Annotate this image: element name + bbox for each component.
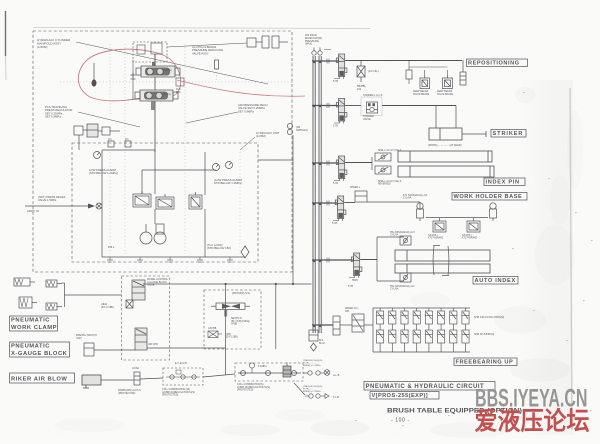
junction box C2 xyxy=(125,141,131,147)
wire xyxy=(320,372,324,374)
valve block VB1 xyxy=(133,191,151,207)
leader xyxy=(186,112,238,123)
wire pilot to valve xyxy=(154,54,156,66)
wire between regulators xyxy=(426,217,488,219)
label box PNEUMATIC X-GAUGE BLOCK xyxy=(10,342,70,357)
dashed right edge inner xyxy=(291,39,293,128)
FLS fitting xyxy=(176,78,184,86)
wire xyxy=(101,150,103,257)
wire xyxy=(102,149,155,151)
solenoid valve SV3 index pin xyxy=(334,156,347,181)
fitting cluster top right xyxy=(247,36,288,48)
dotted grid x=125 xyxy=(124,152,126,254)
feed valve freebearing xyxy=(333,316,340,335)
bus line x=321.2 xyxy=(320,56,322,333)
bus junction y=261 xyxy=(313,260,315,262)
nipple pair xyxy=(287,123,292,128)
pressure regulator R1 xyxy=(417,203,424,221)
wire xyxy=(424,70,426,75)
label work holder cyl xyxy=(403,194,428,200)
wire branch index pin xyxy=(312,162,339,164)
wire xyxy=(154,209,156,224)
label TLB xyxy=(333,395,339,399)
wire branch repositioning xyxy=(312,60,339,62)
label cosa xyxy=(132,367,139,370)
accumulator A1 xyxy=(460,60,466,85)
label dy xyxy=(226,334,238,339)
bus end drain xyxy=(311,343,317,351)
regulator valve freebearing xyxy=(352,314,364,332)
wire valve to manifold xyxy=(154,101,156,152)
dashed box combination unit left xyxy=(163,368,203,385)
mini valve MV1 xyxy=(406,70,412,79)
label ET xyxy=(175,362,187,365)
label box AUTO INDEX xyxy=(473,277,518,285)
label above TLB xyxy=(303,386,322,393)
striker cylinder xyxy=(429,128,486,140)
bus junction y=106 xyxy=(313,105,315,107)
bank valve bottom col6 xyxy=(438,330,445,352)
dotted grid x=110 xyxy=(109,152,111,254)
dashed enclosure hydraulic cylinder unit xyxy=(33,31,292,272)
label hydraulic cylinder manifold xyxy=(37,38,71,49)
label box FREEBEARING UP xyxy=(454,358,517,366)
speed controller SC3 xyxy=(400,236,411,245)
valve block VB2 xyxy=(156,194,174,209)
red hand-drawn annotation loop xyxy=(78,49,180,101)
valve WH2 xyxy=(467,218,480,232)
gauge on combination unit xyxy=(249,363,254,373)
wire split xyxy=(371,157,373,170)
air supply couplings xyxy=(312,51,316,55)
label ALB xyxy=(333,373,340,377)
wire upper xyxy=(377,236,404,238)
wire branch freebearing xyxy=(312,324,333,326)
clamp cylinder CC1 xyxy=(14,278,35,286)
leader xyxy=(78,112,140,127)
pilot solenoid cluster xyxy=(133,42,167,62)
red annotation tail xyxy=(177,80,305,96)
label bank right 2 xyxy=(474,333,494,336)
pipe joint ticks y=163 xyxy=(327,161,329,166)
label air in xyxy=(27,209,39,213)
bank valve bottom col8 xyxy=(462,330,469,352)
bank valve top col3 xyxy=(401,308,408,330)
label protector xyxy=(118,389,141,395)
dashed line xyxy=(184,44,186,152)
wire xyxy=(360,259,377,261)
pipe joint ticks y=260 xyxy=(327,258,329,263)
scan page right edge shadow xyxy=(570,88,572,430)
label SC2 xyxy=(378,181,402,186)
wire between combination units xyxy=(203,374,235,377)
dashed line xyxy=(109,44,111,115)
wire x-gauge valve to regulator box xyxy=(147,347,226,349)
inlet valve cluster left xyxy=(74,124,120,150)
auto index cylinder upper xyxy=(395,250,490,261)
label low press alarm right xyxy=(214,178,242,185)
wire xyxy=(344,202,355,204)
junction box C1 xyxy=(108,141,114,147)
wire pressure switch to valve xyxy=(94,349,135,351)
coupling circle x=243 xyxy=(241,371,246,376)
solenoid valve SV5 auto index xyxy=(349,253,362,278)
speed control box work holder xyxy=(355,191,367,202)
wire to left combination unit xyxy=(140,378,163,379)
label combination left xyxy=(162,388,195,397)
label low press alarm left xyxy=(89,168,118,175)
bank valve top col7 xyxy=(450,308,457,330)
label gx8 xyxy=(208,328,217,330)
reservoir hatch at 200 xyxy=(197,257,203,262)
dotted grid x=185 xyxy=(184,152,186,254)
wire clamp valve to bus xyxy=(143,283,312,285)
coupling circle x=294 xyxy=(292,371,297,376)
leader line to valve assembly xyxy=(76,42,268,84)
label striker stroke xyxy=(428,144,462,147)
wire lower xyxy=(377,280,404,282)
wire to repositioning devices xyxy=(345,60,462,62)
wire vertical split xyxy=(376,237,378,281)
label speed co xyxy=(345,307,359,313)
bank valve top col5 xyxy=(425,308,432,330)
cross fitting xyxy=(131,73,136,80)
label model control xyxy=(147,278,169,287)
bus junction y=326 xyxy=(313,325,315,327)
bus line x=319.0 xyxy=(318,56,320,333)
bus end valve xyxy=(309,330,318,341)
wire to bank xyxy=(364,324,373,326)
label set pressures xyxy=(231,317,250,326)
svg-text:爱液压论坛: 爱液压论坛 xyxy=(475,407,590,436)
wire xyxy=(345,105,361,107)
label box REPOSITIONING xyxy=(467,59,528,67)
pressure gauge PG3 xyxy=(226,162,233,169)
wire down xyxy=(435,106,437,129)
wire xyxy=(204,209,206,257)
scan fold line top xyxy=(33,28,370,29)
wire xyxy=(340,324,352,326)
brake valve assembly xyxy=(135,90,178,110)
clamp cylinder CC4 xyxy=(46,303,62,310)
label combination xyxy=(237,383,270,392)
wire left of assemblies xyxy=(132,60,134,100)
wire pump to filter xyxy=(145,224,147,232)
wire to striker cylinder xyxy=(382,105,456,107)
indicator bulb on leader xyxy=(93,63,95,80)
filter F1 xyxy=(156,224,164,234)
bank valve top col6 xyxy=(438,308,445,330)
reservoir base line xyxy=(102,256,245,258)
label above ALB xyxy=(303,360,322,367)
solenoid valve SV1 repositioning xyxy=(334,54,347,79)
label clutch brake text xyxy=(192,45,223,55)
bracket over cylinders xyxy=(433,246,449,276)
label auto index bottom xyxy=(390,285,415,291)
wire branch work holder xyxy=(312,202,338,204)
wire clamp to valve box xyxy=(65,294,122,296)
label press switch xyxy=(76,334,97,340)
wire xyxy=(62,282,65,284)
coupler xyxy=(192,375,196,379)
pressure regulator R2 xyxy=(490,203,497,221)
bank valve bottom col2 xyxy=(389,330,396,352)
small X box xyxy=(208,331,222,338)
shutoff valve SH2 xyxy=(443,75,453,89)
wire between valves xyxy=(154,77,156,90)
dashed line xyxy=(124,44,126,152)
dashed box regulator set xyxy=(204,290,261,349)
scan edge streak left xyxy=(5,11,7,56)
manual lever xyxy=(126,300,133,308)
shutoff valve SH1 xyxy=(420,75,430,89)
wire in left combination box xyxy=(166,376,200,378)
label bank right 1 xyxy=(474,316,504,319)
label WH1 xyxy=(428,235,444,240)
air blow nozzle block xyxy=(82,375,101,388)
label under SH2 xyxy=(437,90,454,96)
wire pilot to fitting cluster xyxy=(167,43,247,47)
air inlet arrow xyxy=(25,205,93,207)
bus line x=313.0 xyxy=(312,56,314,333)
bank valve bottom col5 xyxy=(425,330,432,352)
bank valve top col2 xyxy=(389,308,396,330)
reservoir hatch at 140 xyxy=(137,257,143,262)
check valve X xyxy=(96,203,102,209)
bank valve top col1 xyxy=(377,308,384,330)
wire header xyxy=(409,66,448,68)
x-gauge valve CV2 xyxy=(135,328,147,350)
wire air blow xyxy=(101,379,134,381)
wire unit to trunk xyxy=(258,159,293,161)
speed controller SC2 xyxy=(375,166,391,174)
auto index cylinder lower xyxy=(395,264,490,273)
label under SH1 xyxy=(413,90,430,96)
wire xyxy=(141,170,143,194)
pressure gauge PG1 xyxy=(94,152,101,159)
label box INDEX PIN xyxy=(484,178,525,186)
solenoid valve SV4 work holder xyxy=(333,196,346,221)
valve block VB3 xyxy=(189,192,202,209)
wire down to TLB xyxy=(294,383,305,395)
label bus end xyxy=(319,339,325,345)
wire xyxy=(419,202,421,210)
pipe joint ticks y=203 xyxy=(327,201,329,206)
combination filter xyxy=(283,363,291,378)
inline filter COSA xyxy=(134,372,140,385)
wire xyxy=(154,150,156,194)
clutch valve assembly xyxy=(136,62,180,77)
label SC1 xyxy=(378,150,402,152)
clamp valve CV1 xyxy=(132,280,145,300)
wire vertical right of regulator box xyxy=(275,284,277,349)
label auto index top xyxy=(390,231,415,237)
label hydraulic unit xyxy=(256,131,280,138)
label TLC load xyxy=(207,243,231,250)
label box STRIKER xyxy=(491,130,526,138)
bus junction y=204 xyxy=(313,203,315,205)
clamp cylinder CC3 xyxy=(19,297,37,308)
bus junction y=164 xyxy=(313,163,315,165)
dashed line horizontal xyxy=(60,81,292,83)
wire xyxy=(142,169,216,171)
drain diamond xyxy=(241,246,249,258)
dashed box combination unit xyxy=(235,363,303,381)
small filter left box xyxy=(176,370,181,374)
scan blotches (decorative) xyxy=(494,306,546,334)
bus junction y=62 xyxy=(313,61,315,63)
label box PNEUMATIC AND HYDRAULIC CIRCUIT xyxy=(364,382,495,391)
wire xyxy=(154,54,156,68)
bank valve bottom col4 xyxy=(413,330,420,352)
wire clamp header xyxy=(64,283,66,307)
label WH2 xyxy=(462,235,478,240)
wire xyxy=(367,201,420,203)
wire down xyxy=(455,106,457,129)
reservoir hatch at 170 xyxy=(167,257,173,262)
pressure gauge PG2 xyxy=(213,164,220,171)
speed controller SC1 xyxy=(375,153,391,161)
pressure switch body xyxy=(84,343,94,356)
bank valve bottom col3 xyxy=(401,330,408,352)
label AIDA xyxy=(101,302,114,309)
wire branch auto index xyxy=(312,259,354,261)
pipe joint ticks y=105.5 xyxy=(327,103,329,108)
bowtie regulator xyxy=(211,303,250,317)
wire trunk vertical right of unit xyxy=(292,135,294,284)
speed controller SC4 xyxy=(400,273,411,282)
pipe joint ticks y=61 xyxy=(327,59,329,64)
dashed enclosure hydraulic power unit xyxy=(72,143,258,262)
wire inside combination xyxy=(238,372,301,374)
bank valve top col4 xyxy=(413,308,420,330)
freebearing valve bank frame xyxy=(372,308,374,352)
reservoir hatch at 110 xyxy=(107,257,113,262)
label box WORK HOLDER BASE xyxy=(452,193,527,201)
label box RIKER AIR BLOW xyxy=(10,373,75,383)
bank valve bottom col1 xyxy=(377,330,384,352)
speed control box striker xyxy=(361,97,382,116)
dotted grid x=240 xyxy=(239,152,241,254)
label box PNEUMATIC WORK CLAMP xyxy=(10,316,58,331)
filter/regulator FR1 xyxy=(357,60,365,82)
wire xyxy=(305,395,309,397)
small relief component xyxy=(215,60,219,69)
label box VPROS-255EXP xyxy=(370,392,439,400)
label relief valve xyxy=(38,195,66,202)
wire xyxy=(447,70,449,75)
coupler xyxy=(181,375,185,379)
label regulators xyxy=(232,292,250,295)
leader xyxy=(240,137,255,150)
coupler xyxy=(170,375,174,379)
label press regulator left xyxy=(45,105,72,119)
wire air in xyxy=(303,372,308,374)
wire branch striker xyxy=(312,105,339,107)
pump motor pair xyxy=(140,232,152,244)
coupling circle x=268 xyxy=(266,371,271,376)
bank valve bottom col7 xyxy=(450,330,457,352)
wire xyxy=(204,152,206,195)
reservoir hatch at 230 xyxy=(227,257,233,262)
label air manifold xyxy=(305,34,322,46)
label air opr xyxy=(148,343,158,346)
clamp cylinder CC2 xyxy=(46,280,62,287)
bus line x=315.2 xyxy=(314,56,316,333)
label press regulator right xyxy=(238,103,268,113)
dashed box clamp valve unit xyxy=(122,276,170,360)
label PBL xyxy=(108,245,115,249)
couplers A.L.B line xyxy=(308,371,312,375)
wire xyxy=(345,162,372,164)
bank valve top col8 xyxy=(462,308,469,330)
index pin cylinder upper xyxy=(398,151,492,162)
wire vertical through regulator box xyxy=(225,285,227,375)
index pin cylinder lower xyxy=(398,166,494,177)
solenoid valve SV2 striker xyxy=(334,99,347,124)
valve WH1 xyxy=(433,218,446,232)
